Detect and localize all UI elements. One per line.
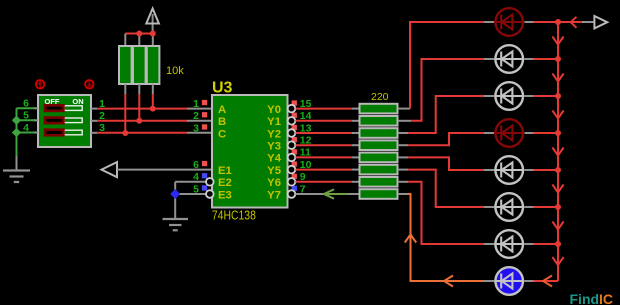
LED D3 [494, 82, 524, 110]
svg-text:ON: ON [72, 97, 83, 106]
svg-text:Y6: Y6 [267, 177, 281, 189]
wire: rail to power terminal (top right) [558, 21, 582, 23]
chip U3 74HC138 body [212, 95, 288, 208]
wire: 10k pack top bus (red) [125, 33, 153, 35]
svg-text:E2: E2 [218, 177, 232, 189]
wire: LED7 feed [408, 182, 486, 244]
svg-text:3: 3 [193, 122, 199, 134]
DIP switch actuator down button [85, 80, 93, 88]
terminal arrow (E1 input, pointing left) [102, 162, 118, 177]
LED D1 (red, off) [494, 8, 524, 36]
svg-text:Y2: Y2 [267, 128, 281, 140]
wire: LED right sides to supply rail [484, 22, 534, 281]
wire: DIP right stubs [91, 109, 97, 133]
svg-text:E1: E1 [218, 165, 232, 177]
DIP right pin numbers 1,2,3 [99, 98, 105, 134]
svg-text:Y4: Y4 [267, 153, 282, 165]
power terminal (right arrow) [582, 16, 607, 28]
svg-text:A: A [218, 104, 226, 116]
output inversion bubbles Y0-Y7 [288, 105, 296, 198]
DIP switch actuator up button [36, 80, 44, 88]
LED D7 [494, 230, 524, 258]
ground (E2/E3) [163, 219, 189, 230]
wire: RN1 top stubs [125, 34, 153, 47]
current arrow on Y7 (green, pointing left) [324, 189, 348, 198]
wire: LED1 feed (row1 up at x=410) [410, 22, 486, 109]
wire: supply rail vertical [557, 22, 559, 281]
svg-text:E3: E3 [218, 189, 232, 201]
resistor pack RN1 10k (3 resistors) [119, 46, 159, 84]
junction dots on top bus [136, 31, 156, 37]
DIP switch sliders (3 poles) [45, 105, 82, 135]
current arrows down on rail [552, 37, 563, 266]
junction dots A/B/C [122, 106, 156, 136]
svg-text:4: 4 [193, 171, 199, 183]
wire: RN1 pulldowns to A/B/C rows (red) [125, 94, 153, 133]
current arrow left (orange) [444, 276, 453, 287]
current arrow left (top right) [571, 17, 577, 28]
junction (blue) E3 [170, 189, 180, 199]
wire: LED3 feed [408, 96, 486, 133]
wire: Y0-Y6 to RN2 (red with gray stubs) [296, 109, 360, 182]
LED D2 [494, 45, 524, 73]
resistor pack RN2 220 (8 resistors) [360, 104, 398, 199]
wire: LED2 feed [411, 59, 486, 121]
LED D4 (red, off) [494, 119, 524, 147]
wire: Y7 row (gray, active) [296, 193, 360, 195]
svg-text:74HC138: 74HC138 [212, 207, 256, 222]
DIP left pin numbers 6,5,4 [23, 98, 29, 134]
wire: E1 row [117, 169, 212, 171]
current arrow left near LED8 (red) [543, 276, 552, 287]
wire: row B (red) [97, 120, 187, 122]
svg-text:2: 2 [193, 110, 199, 122]
wire: row A (red) DIP to chip [97, 108, 187, 110]
svg-text:C: C [218, 128, 226, 140]
inversion bubbles E2/E3 [206, 178, 214, 198]
wire: LED4 feed [408, 133, 486, 145]
wire: chip-side gray stubs A/B/C [187, 109, 212, 133]
chip left logic-state squares [202, 100, 207, 191]
svg-text:5: 5 [193, 183, 199, 195]
svg-text:Y1: Y1 [267, 116, 281, 128]
LED D6 [494, 193, 524, 221]
wire: RN1 bottom stubs [125, 84, 153, 94]
svg-text:Y3: Y3 [267, 141, 281, 153]
chip pin names left [218, 104, 232, 201]
svg-text:Y7: Y7 [267, 189, 281, 201]
junction dots on rail [555, 19, 561, 247]
wire: LED8 feed (orange, active) [407, 194, 486, 281]
wire: LED6 feed [408, 170, 486, 207]
chip left pin numbers [193, 98, 199, 195]
wire: RN2 right stubs (gray) [398, 109, 411, 194]
svg-text:1: 1 [193, 98, 199, 110]
svg-text:220: 220 [371, 91, 389, 103]
ground (left, below DIP) [3, 171, 30, 183]
svg-text:10k: 10k [166, 65, 184, 77]
chip pin names right Y0-Y7 [267, 104, 282, 201]
svg-text:6: 6 [193, 159, 199, 171]
wire: DIP left pins to ground (green) [17, 108, 39, 170]
chip right pin numbers [300, 98, 312, 195]
svg-text:Y0: Y0 [267, 104, 281, 116]
svg-text:Y5: Y5 [267, 165, 281, 177]
wire: LED5 feed [408, 157, 486, 170]
chip right logic-state squares [292, 100, 297, 191]
LED D5 [494, 156, 524, 184]
wire: E2/E3 to ground [175, 182, 206, 219]
DIP switch SW1 body [38, 95, 91, 147]
wire: row C (red) [97, 132, 187, 134]
junction (green diamonds) [12, 116, 21, 138]
current arrow up (orange) [405, 235, 416, 243]
svg-text:B: B [218, 116, 226, 128]
svg-text:FindIC: FindIC [570, 291, 614, 305]
LED D8 (blue, on) [494, 267, 524, 295]
power terminal VCC (top, above 10k pack) [146, 9, 159, 34]
svg-text:U3: U3 [212, 79, 233, 96]
